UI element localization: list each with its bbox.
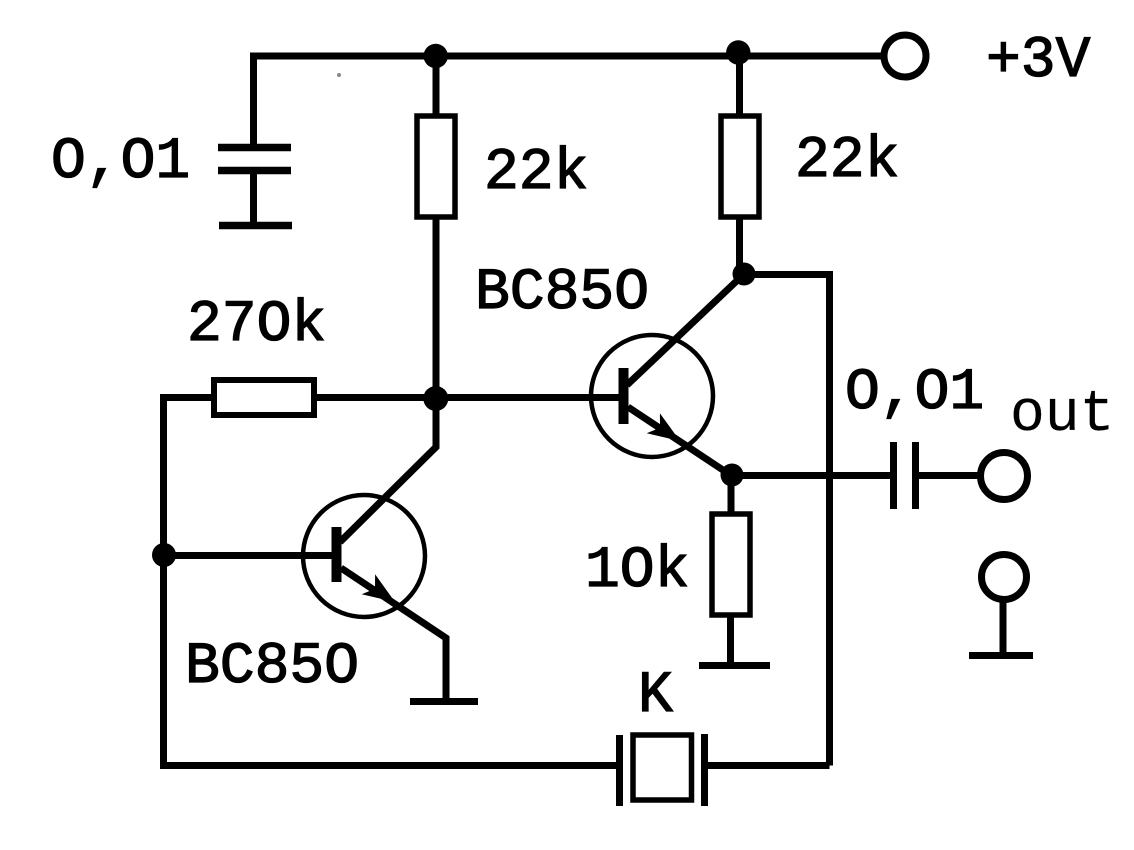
wire emitter node to R4 top [728, 476, 735, 514]
wire Q2 emitter diagonal [628, 407, 732, 476]
transistor Q2 emitter arrow [647, 413, 680, 441]
transistor Q2 circle [591, 335, 713, 457]
wire V+ to R2 top [736, 56, 743, 116]
svg-text:1Ok: 1Ok [585, 539, 689, 604]
wire collector node right and down to crystal [744, 275, 830, 766]
wire top rail with left corner down to C1 [254, 56, 882, 147]
wire crystal right lead [708, 762, 830, 769]
terminal out circle [981, 453, 1028, 500]
crystal K right plate [701, 734, 708, 806]
transistor Q2 base bar [619, 368, 629, 424]
svg-text:out: out [1010, 383, 1114, 448]
svg-text:BC85O: BC85O [475, 261, 649, 326]
svg-text:22k: 22k [795, 129, 899, 194]
svg-text:O,O1: O,O1 [845, 361, 984, 426]
wire Q2 collector diagonal [627, 274, 744, 385]
ground below R4 [699, 662, 770, 669]
crystal K body box [633, 735, 692, 800]
terminal +3V circle [884, 35, 926, 77]
svg-text:O,O1: O,O1 [51, 130, 190, 195]
wire R2 bottom to collector node [736, 217, 743, 274]
capacitor C2 0,01 output plates [894, 442, 916, 509]
ground Q1 emitter [410, 698, 478, 705]
wire emitter node to C2 [732, 472, 890, 479]
node junction dot base left [423, 386, 448, 411]
node junction dot top right [726, 40, 750, 64]
wire Q1 base [163, 552, 332, 559]
node junction dot Q2 emitter [721, 464, 744, 487]
wire R1 bottom to base node [433, 217, 440, 398]
ground bar output terminal [969, 652, 1033, 659]
terminal ground circle [982, 555, 1027, 600]
transistor Q1 base bar [332, 527, 342, 582]
wire C2 to out terminal [919, 472, 982, 479]
wire ground terminal stem [1000, 601, 1007, 655]
wire base rail from 270k right to Q2 base [315, 394, 619, 401]
svg-text:22k: 22k [484, 141, 588, 206]
capacitor C1 0,01 plates [218, 148, 291, 171]
wire R4 bottom to ground [727, 615, 734, 666]
wire V+ to R1 top [433, 56, 440, 116]
wire Q1 emitter (diagonal + vertical to ground) [341, 568, 446, 701]
resistor R4 10k [712, 514, 750, 615]
svg-text:27Ok: 27Ok [187, 293, 326, 358]
resistor R3 270k [214, 380, 314, 415]
wire Q1 collector (vertical + diagonal) [340, 398, 436, 542]
resistor R2 22k [721, 116, 759, 217]
crystal K left plate [616, 735, 623, 806]
transistor Q1 circle [303, 495, 425, 617]
svg-text:K: K [638, 664, 673, 729]
node junction dot Q2 collector [733, 263, 756, 286]
resistor R1 22k [417, 116, 455, 217]
node junction dot Q1 base [152, 543, 176, 567]
transistor Q1 emitter arrow [362, 574, 395, 602]
speck artifact [337, 73, 341, 77]
svg-text:BC85O: BC85O [185, 635, 359, 700]
node junction dot top left [424, 44, 448, 68]
ground below C1 [219, 222, 292, 230]
svg-text:+3V: +3V [986, 29, 1091, 94]
wire C1 top lead (plate to rail handled above) [250, 171, 257, 225]
wire left rail: 270k left lead, down, bottom rail to crystal left plate [164, 398, 617, 766]
